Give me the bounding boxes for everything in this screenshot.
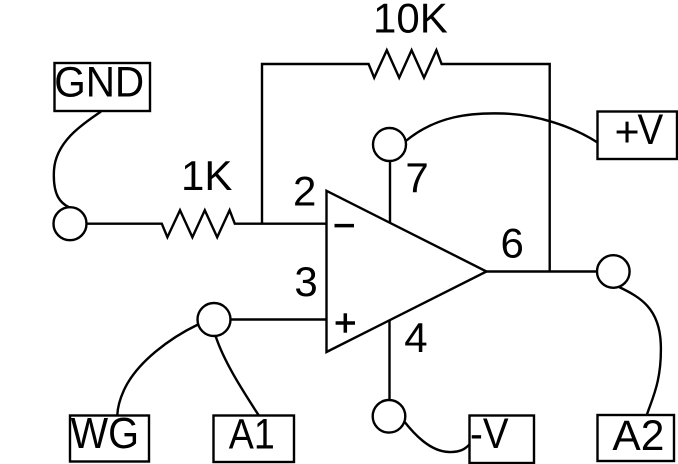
svg-text:-V: -V [470, 410, 509, 458]
svg-text:7: 7 [405, 154, 428, 201]
svg-text:2: 2 [293, 168, 316, 215]
svg-text:V: V [638, 105, 664, 153]
svg-text:10K: 10K [373, 0, 448, 41]
svg-text:1K: 1K [181, 152, 232, 199]
svg-text:GND: GND [54, 58, 144, 106]
svg-text:6: 6 [501, 220, 524, 267]
svg-text:4: 4 [404, 314, 427, 361]
svg-text:+: + [615, 109, 640, 157]
svg-text:A1: A1 [229, 411, 275, 459]
svg-text:3: 3 [294, 258, 317, 305]
svg-text:A2: A2 [612, 413, 664, 460]
svg-text:WG: WG [71, 410, 139, 458]
